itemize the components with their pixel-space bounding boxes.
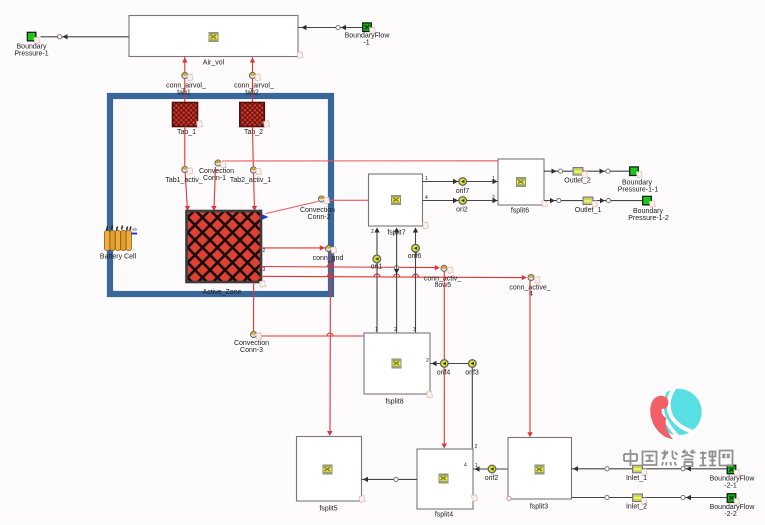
flow splitter fsplit8 — [364, 333, 432, 406]
wire fsplit3 to orif2 to fsplit4 — [473, 466, 508, 471]
svg-text:fsplit6: fsplit6 — [511, 208, 529, 215]
wire Active_Zone down to Convection Conn-3 (red) — [253, 282, 255, 331]
connector conn_activ_flow5 — [424, 265, 461, 289]
svg-text:orif7: orif7 — [456, 188, 470, 195]
svg-text:2: 2 — [394, 327, 397, 333]
svg-text:2: 2 — [371, 229, 374, 235]
orifice orif6 — [408, 244, 422, 260]
wire fsplit7 to ori2 to fsplit6 — [423, 198, 499, 203]
svg-text:Tab_1: Tab_1 — [177, 129, 196, 136]
wire fsplit6 to Outlet_1 to Boundary Pressure-1-2 — [544, 198, 643, 203]
svg-text:Inlet_2: Inlet_2 — [626, 504, 647, 511]
svg-text:3: 3 — [413, 327, 416, 333]
svg-text:Convection: Convection — [199, 168, 234, 175]
svg-text:1: 1 — [492, 176, 495, 182]
svg-text:Active_Zone: Active_Zone — [203, 289, 242, 296]
orifice ori2 — [456, 197, 468, 214]
component Air_vol (air volume) — [129, 16, 303, 67]
wire fsplit4 to fsplit5 — [362, 477, 418, 482]
connector Convection Conn-3 — [234, 331, 269, 354]
svg-text:3: 3 — [263, 267, 266, 273]
orifice orif3 — [465, 360, 479, 377]
wire Air_vol to Tab_1 (red) — [182, 57, 187, 104]
flow splitter fsplit7 — [369, 174, 429, 237]
svg-text:BoundaryFlow: BoundaryFlow — [345, 33, 391, 40]
block Tab_2 — [240, 103, 270, 137]
svg-text:-2-1: -2-1 — [724, 483, 737, 490]
connector conn_airvol_tab2 — [234, 72, 274, 96]
watermark logo — [650, 385, 701, 440]
wire fsplit8 to orif4 and orif3 — [430, 361, 472, 366]
inlet component Inlet_2 — [626, 494, 647, 511]
svg-text:Outlet_2: Outlet_2 — [564, 178, 591, 185]
svg-text:ori1: ori1 — [371, 264, 383, 271]
svg-text:-2-2: -2-2 — [724, 511, 737, 518]
svg-text:Convection: Convection — [234, 340, 269, 347]
svg-text:1: 1 — [425, 176, 428, 182]
watermark text: 理 — [700, 452, 717, 466]
flow splitter fsplit5 — [297, 437, 365, 513]
svg-text:4: 4 — [425, 195, 428, 201]
flow splitter fsplit6 — [498, 159, 547, 215]
wire Convection Conn-2 to fsplit7 (red) — [326, 199, 369, 201]
svg-text:conn_airvol_: conn_airvol_ — [166, 83, 206, 90]
wire fsplit6 to Outlet_2 to Boundary Pressure-1-1 — [544, 169, 630, 174]
wire Tab_1 to Tab1_activ (red) — [185, 127, 190, 212]
wire Active_Zone to conn_gnd (red) — [261, 245, 325, 250]
battery cell icon — [100, 226, 137, 261]
wire Convection Conn-1 down to Active_Zone (red) — [211, 167, 216, 211]
svg-text:4: 4 — [464, 463, 467, 469]
svg-text:flow5: flow5 — [435, 282, 451, 289]
block Tab_1 — [173, 103, 203, 137]
pin numbers — [263, 176, 496, 469]
svg-text:fsplit3: fsplit3 — [530, 504, 548, 511]
wire Convection Conn-2 diagonal to Active_Zone (red) — [262, 202, 318, 220]
svg-text:Tab2_activ_1: Tab2_activ_1 — [230, 177, 271, 184]
wire fsplit7 to fsplit8 line 1 — [374, 228, 379, 334]
wire orif3 down to fsplit4 — [471, 367, 473, 449]
orifice orif4 — [437, 360, 451, 377]
svg-text:Boundary: Boundary — [622, 180, 652, 187]
svg-text:orif4: orif4 — [437, 370, 451, 377]
svg-text:2: 2 — [263, 248, 266, 254]
svg-text:fsplit8: fsplit8 — [385, 399, 403, 406]
wire conn_active_4 down to fsplit3 (red) — [527, 281, 532, 437]
svg-text:fsplit5: fsplit5 — [319, 506, 337, 513]
svg-text:Outlet_1: Outlet_1 — [575, 207, 602, 214]
svg-text:2: 2 — [426, 358, 429, 364]
wire fsplit3 to Inlet_1 to BoundaryFlow-2-1 — [572, 466, 728, 471]
svg-text:-1: -1 — [363, 40, 369, 47]
orifice orif7 — [456, 178, 470, 195]
wire fsplit7 to fsplit8 line 2 — [394, 228, 399, 334]
boundary source BoundaryFlow-2-1 — [710, 465, 756, 489]
boundary source BoundaryFlow-2-2 — [710, 494, 756, 518]
wire Air_vol to BoundaryFlow-1 — [298, 25, 363, 30]
watermark text: 国 — [643, 452, 657, 466]
outlet component Outlet_1 — [575, 197, 602, 214]
wire fsplit7 to orif7 to fsplit6 — [423, 179, 499, 184]
connector Convection Conn-2 — [300, 196, 335, 221]
connector Tab1_activ_ — [165, 166, 202, 184]
svg-text:BoundaryFlow: BoundaryFlow — [710, 476, 756, 483]
wire fsplit7 to fsplit8 line 3 — [413, 228, 418, 334]
flow splitter fsplit4 — [417, 449, 477, 519]
connector conn_airvol_tab1 — [166, 72, 206, 96]
block Active_Zone — [187, 211, 266, 296]
wire conn_activ_flow5 down through orif4 to fsplit4 (red) — [442, 272, 447, 449]
wire Convection Conn-1 to fsplit6 (red) — [222, 160, 498, 162]
orifice orif2 — [485, 465, 499, 482]
svg-text:ori2: ori2 — [456, 207, 468, 214]
flow splitter fsplit3 — [507, 438, 572, 511]
connector conn_active_4 — [509, 274, 550, 298]
svg-text:Conn-2: Conn-2 — [308, 214, 331, 221]
connector conn_gnd — [313, 245, 344, 262]
orifice ori1 — [371, 255, 383, 270]
wire Active_Zone to conn_activ_flow5 (red) — [261, 264, 440, 271]
svg-text:Tab_2: Tab_2 — [244, 129, 263, 136]
connector Convection Conn-1 — [199, 160, 234, 182]
svg-text:Conn-3: Conn-3 — [240, 347, 263, 354]
svg-text:orif2: orif2 — [485, 475, 499, 482]
svg-text:conn_gnd: conn_gnd — [313, 255, 344, 262]
outlet component Outlet_2 — [564, 168, 591, 185]
watermark text: 热 — [662, 450, 678, 466]
blue battery enclosure frame — [110, 96, 331, 294]
svg-text:Tab1_activ_: Tab1_activ_ — [165, 177, 202, 184]
watermark text: 管 — [682, 450, 696, 466]
boundary source Boundary Pressure-1 — [14, 32, 48, 57]
boundary sink Boundary Pressure-1-2 — [628, 196, 669, 222]
svg-text:Boundary: Boundary — [17, 44, 47, 51]
svg-text:Pressure-1-2: Pressure-1-2 — [628, 215, 669, 222]
svg-text:Convection: Convection — [300, 207, 335, 214]
svg-text:Conn-1: Conn-1 — [203, 175, 226, 182]
wire BoundaryPressure-1 to Air_vol — [41, 34, 130, 39]
svg-text:Air_vol: Air_vol — [203, 60, 225, 67]
watermark text: 中 — [624, 450, 637, 467]
wire fsplit3 to Inlet_2 to BoundaryFlow-2-2 — [572, 495, 728, 500]
svg-text:orif6: orif6 — [408, 253, 422, 260]
svg-text:2: 2 — [475, 444, 478, 450]
boundary source BoundaryFlow-1 — [345, 23, 391, 47]
svg-text:Pressure-1-1: Pressure-1-1 — [618, 187, 659, 194]
svg-text:fsplit4: fsplit4 — [435, 512, 453, 519]
svg-text:Inlet_1: Inlet_1 — [626, 475, 647, 482]
wire Convection Conn-3 to fsplit8 (red) — [257, 333, 364, 336]
inlet component Inlet_1 — [626, 465, 647, 482]
svg-text:1: 1 — [475, 463, 478, 469]
svg-text:conn_airvol_: conn_airvol_ — [234, 83, 274, 90]
wire Active_Zone to conn_active_4 (red) — [261, 274, 527, 281]
wire conn_gnd down to fsplit5 (red) — [327, 252, 332, 436]
svg-text:Battery Cell: Battery Cell — [100, 254, 137, 261]
svg-text:1: 1 — [375, 327, 378, 333]
wire Air_vol to Tab_2 (red) — [250, 57, 255, 104]
svg-text:2: 2 — [492, 195, 495, 201]
svg-text:Pressure-1: Pressure-1 — [14, 51, 48, 58]
svg-text:BoundaryFlow: BoundaryFlow — [710, 504, 756, 511]
connector Tab2_activ_1 — [230, 167, 271, 184]
svg-text:tab1: tab1 — [177, 90, 191, 97]
svg-text:Boundary: Boundary — [633, 208, 663, 215]
svg-text:tab2: tab2 — [245, 90, 259, 97]
boundary sink Boundary Pressure-1-1 — [618, 167, 659, 194]
watermark text: 网 — [720, 451, 733, 466]
wire Tab_2 to Tab2_activ_1 (red) — [252, 127, 257, 212]
